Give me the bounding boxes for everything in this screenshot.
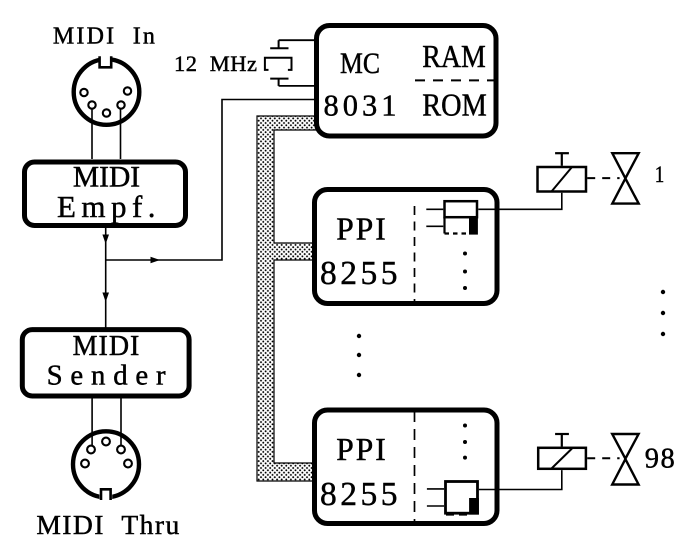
box MC 8031 / RAM / ROM	[317, 26, 498, 137]
svg-text:MIDI: MIDI	[73, 331, 141, 362]
wire driver PPI1 to relay K1	[478, 193, 562, 210]
wire PPI1 input b to driver	[426, 225, 443, 227]
svg-text:8255: 8255	[320, 255, 401, 292]
ellipsis dots right margin	[661, 290, 665, 336]
svg-text:8031: 8031	[324, 89, 401, 123]
wire driver PPI2 to relay K98	[479, 470, 562, 489]
wire PPI2 input b to driver	[427, 505, 444, 507]
arrow down on Sender wire	[102, 293, 109, 303]
svg-text:12 MHz: 12 MHz	[174, 51, 258, 76]
dashed divider RAM/ROM	[415, 79, 498, 81]
svg-text:PPI: PPI	[336, 211, 388, 246]
svg-text:ROM: ROM	[422, 88, 487, 123]
svg-text:8255: 8255	[320, 476, 401, 513]
valve 98	[612, 434, 638, 485]
crystal X1 12 MHz	[265, 40, 292, 86]
svg-text:PPI: PPI	[336, 432, 388, 467]
wire MIDI Sender to J2 (left)	[91, 396, 93, 446]
wire K1 to valve 1 (dashed)	[587, 177, 619, 179]
arrow down on Empf wire	[102, 235, 109, 245]
ellipsis dots inside PPI2	[463, 424, 467, 428]
svg-text:MIDI In: MIDI In	[53, 24, 157, 50]
wire MIDI Sender to J2 (right)	[120, 396, 122, 446]
svg-text:MC: MC	[340, 47, 380, 80]
svg-text:Sender: Sender	[47, 360, 174, 392]
dashed divider PPI1	[414, 206, 416, 303]
driver output stage PPI1	[445, 201, 478, 234]
wire J1 pin to MIDI Empf (right)	[120, 109, 122, 159]
wire PPI2 input a to driver	[427, 488, 444, 490]
wire junction to MIDI Sender (down, with arrow)	[105, 260, 107, 330]
box PPI 8255 (lower)	[315, 410, 498, 524]
wire MIDI Empf output (down, with arrow)	[105, 228, 107, 260]
svg-text:98: 98	[645, 444, 677, 475]
box MIDI Empf.	[25, 161, 186, 225]
ellipsis dots inside PPI1	[463, 252, 467, 256]
driver output stage PPI2	[446, 482, 479, 515]
wire XTAL2 to MC 8031	[279, 85, 314, 87]
box MIDI Sender	[22, 330, 189, 396]
svg-text:Empf.: Empf.	[57, 189, 161, 224]
wire PPI1 input a to driver	[426, 208, 443, 210]
box PPI 8255 (upper)	[315, 190, 498, 304]
svg-text:1: 1	[655, 162, 665, 187]
arrow right on serial wire	[151, 257, 161, 264]
svg-text:RAM: RAM	[422, 39, 486, 74]
dashed divider PPI2	[414, 411, 416, 523]
wire XTAL1 to MC 8031	[279, 39, 314, 41]
wire J1 pin to MIDI Empf (left)	[91, 109, 93, 159]
relay K98	[538, 434, 586, 469]
wire serial line junction to MC 8031 (right, up, right)	[106, 100, 314, 261]
connector J2 MIDI Thru (DIN socket)	[73, 431, 139, 501]
ellipsis dots between PPI boxes	[357, 334, 361, 377]
connector J1 MIDI In (DIN socket)	[74, 55, 140, 125]
svg-text:MIDI Thru: MIDI Thru	[36, 509, 180, 540]
wire K98 to valve 98 (dashed)	[587, 457, 619, 459]
bus MC 8031 to PPIs (stippled)	[257, 116, 317, 481]
relay K1	[538, 153, 587, 191]
valve 1	[612, 153, 638, 203]
